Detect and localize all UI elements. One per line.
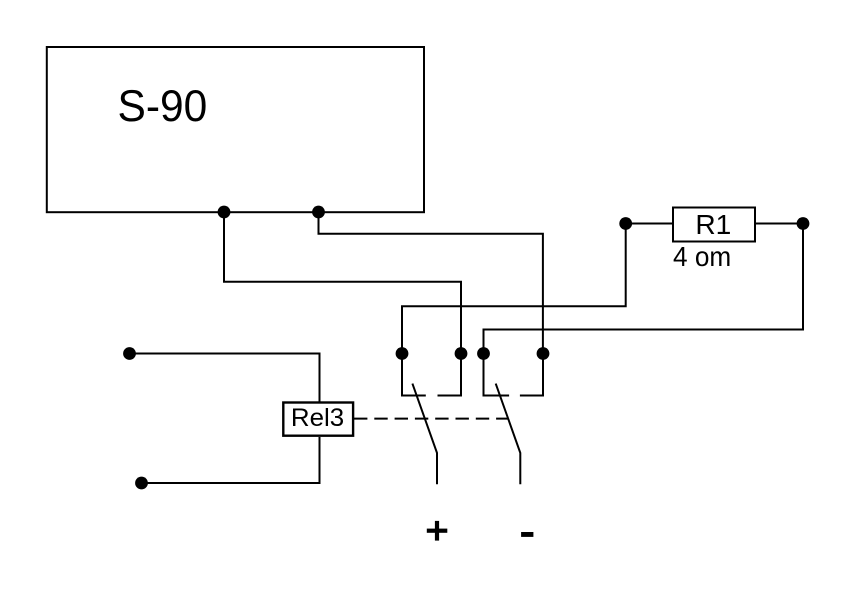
svg-text:Rel3: Rel3: [291, 405, 344, 432]
svg-text:4 om: 4 om: [673, 241, 731, 272]
svg-text:S-90: S-90: [117, 82, 207, 131]
svg-text:R1: R1: [695, 209, 731, 240]
